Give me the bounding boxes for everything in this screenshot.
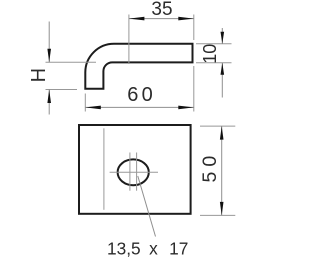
- plate (top view): [79, 125, 191, 214]
- leader line to slot label: [138, 176, 156, 237]
- dim 60 extension line left: [84, 94, 86, 112]
- dim H dimension line upper: [48, 22, 50, 63]
- svg-text:60: 60: [127, 84, 156, 106]
- dim H dimension line lower: [48, 90, 50, 115]
- dim 10 arrow lower (points up): [221, 63, 225, 75]
- dim 35 extension line left: [128, 15, 130, 65]
- dim 35 extension line right: [193, 15, 195, 41]
- dim 35 dimension line: [129, 18, 194, 20]
- hole centerline vertical right: [136, 153, 138, 191]
- svg-text:10: 10: [200, 44, 220, 64]
- dim H extension line bottom: [46, 89, 78, 91]
- dim 50 extension line top: [200, 125, 235, 127]
- dim 35 arrow right: [178, 17, 194, 21]
- svg-text:35: 35: [151, 0, 172, 20]
- dim 10 dimension line lower: [221, 63, 223, 98]
- dim 35 arrow left: [129, 17, 145, 21]
- dim 10 arrow upper (points down): [221, 32, 225, 44]
- svg-text:17: 17: [169, 239, 188, 259]
- hole centerline horizontal: [110, 171, 158, 173]
- dim 50 arrow bottom (points down): [220, 202, 224, 216]
- bend line: [103, 128, 105, 210]
- svg-text:H: H: [28, 68, 50, 82]
- svg-text:50: 50: [199, 151, 221, 183]
- dim H extension line top: [46, 61, 97, 63]
- hole centerline vertical left: [129, 153, 131, 191]
- svg-text:13,5: 13,5: [107, 239, 141, 259]
- dim 60 dimension line: [85, 106, 194, 108]
- dim 50 extension line bottom: [200, 214, 235, 216]
- slot hole: [118, 159, 149, 185]
- dim H arrow upper (points down): [47, 49, 51, 63]
- dim 60 arrow left: [85, 106, 101, 110]
- dim 10 extension line top: [196, 43, 232, 45]
- dim 50 arrow top (points up): [220, 126, 224, 140]
- dim 50 dimension line: [221, 126, 223, 215]
- dim 10 extension line bottom: [196, 62, 232, 64]
- dim H arrow lower (points up): [47, 90, 51, 104]
- dim 60 extension line right: [193, 66, 195, 112]
- dim 10 dimension line upper: [221, 28, 223, 44]
- dim 60 arrow right: [178, 106, 194, 110]
- svg-text:x: x: [149, 239, 158, 259]
- bracket profile (side view): [85, 44, 192, 89]
